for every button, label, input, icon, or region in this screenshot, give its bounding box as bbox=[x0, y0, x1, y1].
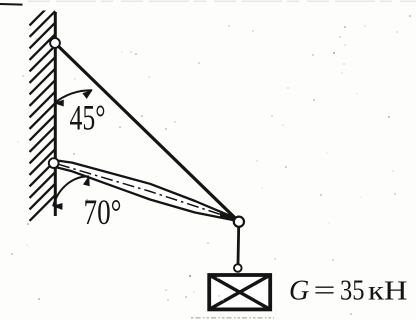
70 deg arc with arrows bbox=[53, 176, 89, 206]
pin 2 (beam anchor) bbox=[49, 158, 59, 168]
45 deg arc with arrows bbox=[55, 90, 92, 103]
weight box diagonal 1 bbox=[209, 275, 270, 309]
70 arc arrowhead at beam end bbox=[84, 176, 90, 186]
wall hatching bbox=[30, 0, 56, 221]
70 arc arrowhead at wall end bbox=[53, 203, 62, 209]
svg-text:35: 35 bbox=[340, 276, 365, 307]
pin 1 (top, cable anchor) bbox=[50, 38, 60, 48]
junction pin at beam tip bbox=[234, 217, 244, 227]
beam (jib bar) outline bbox=[56, 160, 237, 221]
label G = 35 kN bbox=[289, 276, 408, 307]
svg-text:=: = bbox=[314, 276, 336, 307]
beam dash-dot centerline bbox=[58, 164, 236, 219]
svg-text:G: G bbox=[289, 276, 309, 307]
45 arc arrowhead at wall end bbox=[55, 100, 64, 106]
cable (45 deg tie) bbox=[55, 43, 239, 222]
gray dotted line under box bbox=[191, 317, 274, 319]
weight box diagonal 2 bbox=[209, 275, 270, 309]
beam tip solid wedge bbox=[220, 213, 238, 223]
wall vertical line bbox=[54, 12, 57, 216]
45 arc arrowhead at cable end bbox=[83, 90, 92, 98]
scan top edge gray line bbox=[28, 0, 416, 2]
svg-text:45°: 45° bbox=[70, 98, 106, 138]
hanger rod bbox=[237, 227, 240, 264]
svg-text:70°: 70° bbox=[84, 192, 122, 232]
hook ring bbox=[234, 264, 242, 272]
top-left black fragment line bbox=[0, 3, 23, 6]
weight box bbox=[209, 275, 270, 309]
svg-text:кН: кН bbox=[368, 276, 408, 306]
